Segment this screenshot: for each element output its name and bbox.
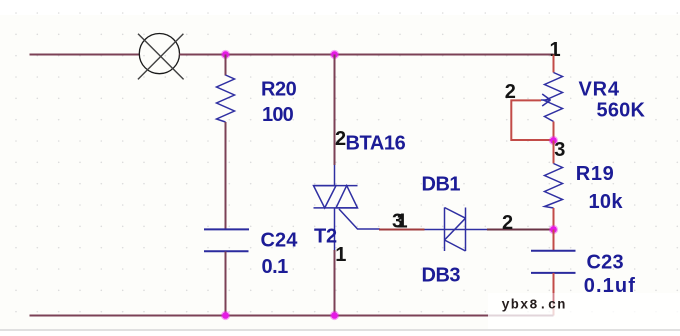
pin 3 of VR4 xyxy=(554,139,565,161)
triac T2 xyxy=(314,165,381,250)
wire: T2 to bottom rail xyxy=(334,250,336,316)
label C24 xyxy=(261,230,299,252)
svg-text:C24: C24 xyxy=(261,230,299,252)
wire: R20 to C24 xyxy=(225,122,227,229)
svg-text:BTA16: BTA16 xyxy=(346,132,406,154)
pin 2 of DB3 xyxy=(502,212,513,234)
potentiometer VR4 xyxy=(541,73,563,122)
node: junction bottom rail / T2 xyxy=(330,311,339,320)
node: junction VR4/R19/wiper xyxy=(549,136,558,145)
svg-text:2: 2 xyxy=(335,128,346,150)
node: junction top wire / T2 branch xyxy=(330,50,339,59)
resistor R20 xyxy=(217,75,235,122)
svg-text:10k: 10k xyxy=(589,191,624,213)
wire: C24 to bottom rail xyxy=(225,252,227,316)
svg-text:R20: R20 xyxy=(261,78,297,100)
pin 2 of VR4 xyxy=(505,81,516,103)
wire: C23 lead showing through watermark box xyxy=(553,293,555,304)
wire: wiper loop from pin2 to pin3 xyxy=(511,100,553,140)
svg-text:1: 1 xyxy=(397,210,408,232)
value 10k xyxy=(589,191,624,213)
pin 1 of DB3 (overlapping) xyxy=(397,210,408,232)
pin 1 of VR4 xyxy=(550,39,561,61)
value 0.1uf xyxy=(584,275,636,297)
svg-text:DB3: DB3 xyxy=(422,264,461,286)
wire: diac to C23 junction xyxy=(487,229,554,231)
wire: corner down to VR4 xyxy=(553,55,555,73)
wire: AC line left segment into lamp xyxy=(30,54,140,56)
svg-text:1: 1 xyxy=(335,244,346,266)
svg-text:C23: C23 xyxy=(587,252,624,274)
label R20 xyxy=(261,78,297,100)
resistor R19 xyxy=(545,164,563,209)
svg-text:0.1: 0.1 xyxy=(262,256,289,278)
wire: R19 to junction at C23 xyxy=(553,208,555,230)
svg-text:R19: R19 xyxy=(576,163,615,185)
wire: bottom rail xyxy=(30,315,554,317)
svg-text:3: 3 xyxy=(554,139,565,161)
capacitor C23 xyxy=(531,251,576,273)
label C23 xyxy=(587,252,624,274)
label VR4 xyxy=(579,78,620,100)
value 560K xyxy=(597,100,646,122)
wire: C23 to bottom rail xyxy=(553,273,555,316)
watermark ybx8.cn xyxy=(502,299,567,314)
wire: VR4 bottom to junction xyxy=(553,122,555,142)
svg-text:T2: T2 xyxy=(314,226,337,248)
label DB1 xyxy=(422,173,461,195)
svg-text:ybx8.cn: ybx8.cn xyxy=(502,299,567,314)
node: junction bottom rail / C24 xyxy=(221,311,230,320)
label T2 xyxy=(314,226,337,248)
wire: junction to C23 xyxy=(553,230,555,252)
watermark translucent box xyxy=(488,293,680,330)
capacitor C24 xyxy=(204,229,249,251)
wire: junction to R19 xyxy=(553,141,555,164)
svg-text:1: 1 xyxy=(550,39,561,61)
wire: top horizontal from lamp to right corner xyxy=(179,54,553,56)
node: junction gate-net / C23 xyxy=(549,225,558,234)
pin 1 of T2 xyxy=(335,244,346,266)
svg-text:100: 100 xyxy=(262,104,294,126)
svg-text:560K: 560K xyxy=(597,100,646,122)
wire: junction down to T2 xyxy=(334,55,336,166)
value 100 xyxy=(262,104,294,126)
wire: junction down to R20 xyxy=(225,55,227,76)
svg-text:DB1: DB1 xyxy=(422,173,461,195)
wire: gate to diac xyxy=(379,229,425,231)
diac DB3 xyxy=(425,208,488,252)
value 0.1 xyxy=(262,256,289,278)
pin 3 of T2 xyxy=(392,210,403,232)
lamp (circle with X) xyxy=(138,34,184,80)
svg-text:VR4: VR4 xyxy=(579,78,620,100)
svg-text:2: 2 xyxy=(502,212,513,234)
node: junction top wire / R20 branch xyxy=(221,50,230,59)
pin 2 of T2 xyxy=(335,128,346,150)
bottom window edge line xyxy=(0,329,680,331)
label R19 xyxy=(576,163,615,185)
value BTA16 xyxy=(346,132,406,154)
label DB3 xyxy=(422,264,461,286)
